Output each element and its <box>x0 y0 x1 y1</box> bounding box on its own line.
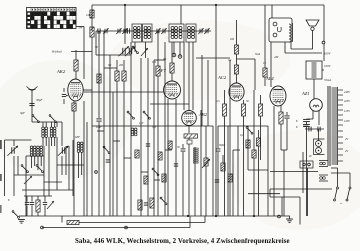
screen resistor <box>74 60 78 71</box>
grid stopper <box>263 68 267 77</box>
wire <box>66 95 68 97</box>
wire <box>204 216 206 223</box>
tuning trimmer <box>118 46 129 56</box>
field coil box <box>306 61 322 79</box>
wire <box>280 124 282 150</box>
IF2 primary winding <box>171 27 174 39</box>
wire <box>237 58 256 60</box>
wire <box>306 122 308 124</box>
wire <box>134 42 136 52</box>
capacitor <box>96 119 101 121</box>
wire <box>260 95 262 104</box>
wire <box>233 149 240 151</box>
IF transformer can 1 secondary box <box>143 24 153 42</box>
svg-text:110V: 110V <box>344 120 350 123</box>
wire <box>43 146 45 196</box>
wire <box>205 126 207 158</box>
wire <box>284 42 286 53</box>
tube AB2 internals <box>184 113 194 124</box>
capacitor <box>30 202 34 204</box>
wire <box>42 138 44 147</box>
wire <box>40 156 42 166</box>
wave switch <box>36 165 43 173</box>
wire <box>236 54 238 65</box>
wire <box>57 164 84 166</box>
svg-text:0,1: 0,1 <box>163 58 167 61</box>
capacitor <box>146 144 150 146</box>
trimmer capacitor <box>198 28 203 34</box>
wire <box>13 156 15 196</box>
wire <box>222 155 224 163</box>
ground <box>18 220 25 224</box>
wire <box>25 156 27 212</box>
wire <box>224 90 226 104</box>
wire <box>32 121 62 123</box>
heater winding bracket 1 <box>319 161 328 167</box>
wire <box>260 116 262 160</box>
wire <box>73 101 75 103</box>
mains earth switch <box>12 211 19 219</box>
node <box>322 41 325 44</box>
wire <box>312 31 314 50</box>
wire <box>291 48 313 50</box>
antenna coil <box>30 146 33 156</box>
dial lamp housing <box>314 139 325 155</box>
wire <box>56 122 58 127</box>
tube AK2 internals <box>70 83 81 99</box>
mains switch pole 1 <box>334 187 339 201</box>
IF2 secondary winding <box>188 27 191 39</box>
svg-text:30pF: 30pF <box>36 98 43 102</box>
antenna coil 4 <box>40 146 43 156</box>
svg-text:AB2: AB2 <box>198 112 208 117</box>
wire <box>150 103 189 105</box>
wire <box>312 111 314 120</box>
tube AF7 internals <box>166 84 178 97</box>
wire <box>65 146 67 175</box>
terminal circle <box>303 163 306 166</box>
input coil <box>50 127 53 137</box>
resistor <box>138 200 142 210</box>
wire <box>51 138 53 147</box>
tube AK2 envelope <box>68 79 83 101</box>
wire <box>75 71 77 79</box>
wire <box>19 215 26 217</box>
plate resistor 2 <box>234 65 238 74</box>
wire <box>54 138 56 147</box>
trimmer arrow <box>24 176 32 184</box>
wire <box>283 188 332 190</box>
wire <box>71 51 92 53</box>
AF choke winding <box>193 148 198 163</box>
table header row <box>27 8 77 12</box>
tone switch <box>246 127 253 135</box>
wire <box>248 193 280 195</box>
wire <box>205 166 207 216</box>
wire <box>68 146 70 190</box>
tuning capacitor gang 1 <box>7 146 18 156</box>
svg-text:AZ1: AZ1 <box>301 91 310 96</box>
IF1 primary winding 2 <box>137 27 140 39</box>
wire <box>124 157 131 159</box>
wire <box>179 42 181 57</box>
wire <box>237 126 239 216</box>
terminal circle <box>308 163 311 166</box>
svg-text:240V: 240V <box>344 91 350 94</box>
wire <box>299 197 301 225</box>
svg-text:4V: 4V <box>345 138 348 141</box>
wire <box>26 206 28 217</box>
wire <box>24 195 52 197</box>
capacitor <box>127 28 129 33</box>
wire <box>48 137 50 196</box>
wire <box>73 111 75 216</box>
wire <box>96 54 131 56</box>
output transformer winding <box>289 23 293 42</box>
svg-text:B-(Ant): B-(Ant) <box>52 50 62 54</box>
wire <box>124 5 126 44</box>
wire <box>305 128 324 130</box>
chassis ground <box>286 219 293 223</box>
node <box>215 215 217 217</box>
page edge mark <box>0 205 2 213</box>
wire <box>26 196 28 202</box>
wire <box>123 81 125 216</box>
band switch table frame <box>27 8 77 29</box>
resistor <box>122 71 126 81</box>
wire rail 2 <box>79 222 205 224</box>
tuning trimmer <box>125 46 136 56</box>
IF transformer can 2 secondary box <box>186 24 196 42</box>
wire <box>189 216 191 228</box>
svg-text:220V: 220V <box>344 100 350 103</box>
wire <box>232 150 234 216</box>
wire <box>337 168 339 187</box>
volume pot <box>204 158 208 166</box>
wire <box>194 147 196 216</box>
node on top bus <box>215 4 217 6</box>
band switch <box>143 111 150 119</box>
antenna <box>27 87 38 123</box>
diode load resistor <box>184 134 198 138</box>
resistor <box>246 140 250 148</box>
resistor <box>156 66 160 76</box>
svg-text:55mA: 55mA <box>324 78 331 82</box>
tube AF7 envelope <box>164 81 181 99</box>
trimmer capacitor <box>122 28 127 34</box>
wire <box>217 152 219 216</box>
trimmer below IF1 <box>141 48 148 56</box>
pot circle <box>172 53 176 57</box>
wire <box>37 212 39 216</box>
wire <box>81 152 83 175</box>
wire <box>247 126 249 170</box>
wire <box>56 137 58 190</box>
tube AC2 envelope <box>229 83 244 101</box>
wire <box>154 179 160 181</box>
wire <box>218 125 268 127</box>
table black cell pattern <box>27 12 77 29</box>
wire <box>165 149 172 151</box>
wire <box>83 101 85 216</box>
capacitor <box>187 140 192 144</box>
wire <box>318 129 320 141</box>
wire <box>175 99 177 216</box>
svg-text:4V: 4V <box>345 150 348 153</box>
trimmer capacitor <box>204 28 209 34</box>
wire <box>153 60 155 216</box>
wire <box>98 31 100 118</box>
svg-text:Saba, 446 WLK, Wechselstrom, 2: Saba, 446 WLK, Wechselstrom, 2 Vorkreise… <box>75 238 290 245</box>
wire <box>188 42 190 104</box>
wire <box>61 216 63 223</box>
svg-text:AF7: AF7 <box>157 68 167 73</box>
tube AB2 envelope <box>182 111 197 126</box>
switch <box>103 146 110 154</box>
switch <box>160 197 167 205</box>
wire <box>116 60 118 71</box>
wire <box>180 5 182 24</box>
wire <box>253 158 255 216</box>
wire <box>286 112 288 115</box>
wire <box>51 122 53 127</box>
wire <box>123 60 125 71</box>
resistor <box>150 198 154 208</box>
table row labels column <box>27 12 32 29</box>
wire <box>271 5 273 18</box>
wire <box>323 44 325 61</box>
tube AZ1 envelope <box>310 99 323 112</box>
wave switch <box>21 165 28 173</box>
power transformer core <box>328 86 330 166</box>
wire <box>37 196 39 200</box>
wire <box>44 196 46 202</box>
wire <box>285 52 322 54</box>
wire <box>98 122 100 216</box>
wire top B+ bus <box>92 4 324 6</box>
AF coupling capacitor <box>181 149 186 151</box>
wire <box>103 31 105 150</box>
wire <box>103 150 105 216</box>
trimmer capacitor <box>155 28 160 34</box>
node <box>187 215 189 217</box>
wire <box>331 172 350 174</box>
wire <box>200 110 202 216</box>
wire <box>280 105 282 112</box>
wire <box>188 138 190 140</box>
wire <box>25 212 27 216</box>
IF2 secondary winding 2 <box>192 27 195 39</box>
wire <box>243 116 245 216</box>
svg-text:AC2: AC2 <box>217 75 227 80</box>
wire <box>164 42 166 216</box>
input coil 2 <box>53 127 56 137</box>
wire <box>236 74 238 83</box>
oscillator padder coil 2 <box>80 142 83 152</box>
resistor <box>162 174 166 182</box>
svg-text:3pF: 3pF <box>20 111 25 115</box>
wire <box>264 5 266 68</box>
wire <box>157 31 159 66</box>
wire <box>167 99 169 216</box>
wire <box>61 122 63 146</box>
IF1 secondary winding 2 <box>148 27 151 39</box>
wire <box>147 58 149 216</box>
band switch <box>49 115 56 123</box>
wire <box>75 50 77 60</box>
svg-text:1pF: 1pF <box>139 122 144 125</box>
page edge mark <box>0 140 2 149</box>
IF2 winding 2 <box>179 27 182 39</box>
resistor <box>221 163 225 171</box>
wire <box>112 92 114 216</box>
wire <box>83 27 85 80</box>
svg-text:125V: 125V <box>344 110 350 113</box>
resistor <box>115 71 119 81</box>
wire <box>63 99 65 104</box>
IF transformer can 2 primary box <box>169 24 184 42</box>
paper tint <box>110 20 290 100</box>
trimmer capacitor <box>103 28 108 34</box>
wire <box>157 76 159 216</box>
wire <box>22 189 73 191</box>
wire <box>253 90 255 150</box>
wire <box>83 89 92 91</box>
loudspeaker socket box <box>300 161 313 168</box>
wire <box>5 139 32 141</box>
svg-text:4W: 4W <box>274 55 279 59</box>
wire <box>76 26 84 28</box>
wire <box>188 144 190 216</box>
svg-text:5mA: 5mA <box>255 53 260 56</box>
decoupling resistor <box>258 104 262 116</box>
resistor <box>90 27 94 37</box>
wire <box>322 69 324 71</box>
anode resistor <box>170 63 174 73</box>
wire <box>116 81 118 216</box>
wire <box>215 5 217 216</box>
pot arrow <box>47 201 54 209</box>
wire <box>267 126 269 216</box>
wire <box>212 126 214 216</box>
speaker box <box>269 18 292 42</box>
wire <box>258 130 260 138</box>
dial lamp 2 <box>316 148 322 154</box>
wire <box>192 42 194 110</box>
IF2 winding <box>175 27 178 39</box>
wire <box>248 169 268 171</box>
wire <box>63 88 65 92</box>
grid capacitor <box>62 94 66 96</box>
tuning capacitor gang 2 <box>58 146 69 156</box>
wire <box>91 37 93 216</box>
wire <box>302 152 304 193</box>
resistor <box>256 138 260 146</box>
wire AVC bus <box>92 125 213 127</box>
IF transformer can 1 primary box <box>132 24 142 42</box>
wire <box>217 126 219 148</box>
wire <box>323 5 325 42</box>
wire <box>44 206 46 217</box>
wire <box>270 42 272 87</box>
field coil winding <box>312 63 317 77</box>
capacitor <box>303 124 310 126</box>
wire <box>86 122 88 216</box>
wire <box>290 42 292 49</box>
capacitor <box>144 203 148 205</box>
wire IF chain bus <box>96 30 211 32</box>
wire <box>13 140 15 146</box>
node circle <box>125 226 128 229</box>
paper tint <box>0 60 130 180</box>
wire <box>31 206 33 217</box>
resistor <box>144 176 148 184</box>
wire <box>349 173 351 187</box>
mains switch pole 2 <box>346 187 351 201</box>
trimmer capacitor <box>161 28 166 34</box>
wire <box>229 60 231 216</box>
oscillator padder coil <box>77 142 80 152</box>
antenna coil 3 <box>37 146 40 156</box>
svg-text:4V: 4V <box>309 155 312 158</box>
speaker magnet circle <box>273 22 277 26</box>
coil <box>131 128 134 136</box>
wire <box>201 55 203 126</box>
capacitor antenna coupling <box>98 28 100 33</box>
wire <box>130 42 132 216</box>
wire <box>171 73 173 81</box>
node <box>253 215 255 217</box>
wire <box>141 171 148 173</box>
capacitor 30pF <box>29 103 34 105</box>
speaker magnet circle 2 <box>273 33 277 37</box>
paper tint <box>230 130 360 230</box>
wire <box>42 122 44 127</box>
wire <box>264 77 266 86</box>
wire <box>318 111 320 126</box>
speaker cone <box>306 20 319 26</box>
wire <box>26 155 44 157</box>
wire <box>307 118 314 120</box>
wire <box>17 156 19 175</box>
cathode bias resistor <box>279 112 283 124</box>
wire <box>236 20 238 45</box>
transformer taps <box>338 90 343 161</box>
wire <box>109 55 111 216</box>
heater winding bracket 2 <box>319 175 328 181</box>
svg-text:LPF: LPF <box>74 136 80 139</box>
wire <box>207 60 209 126</box>
wire <box>91 5 93 31</box>
node circle <box>41 226 44 229</box>
resistor <box>252 150 256 158</box>
wire <box>269 189 271 197</box>
wire <box>331 167 338 169</box>
wire <box>270 171 318 173</box>
wire <box>196 57 230 59</box>
capacitor <box>43 202 47 204</box>
speaker coil circle <box>311 27 314 30</box>
plate resistor <box>234 45 238 54</box>
capacitor <box>174 164 178 166</box>
wire <box>286 119 288 150</box>
wire <box>270 196 300 198</box>
oscillator coil 2 <box>45 127 48 137</box>
speaker U symbol <box>278 27 282 32</box>
wire <box>113 140 120 142</box>
wire <box>37 156 39 170</box>
dial lamp 1 <box>316 141 322 147</box>
